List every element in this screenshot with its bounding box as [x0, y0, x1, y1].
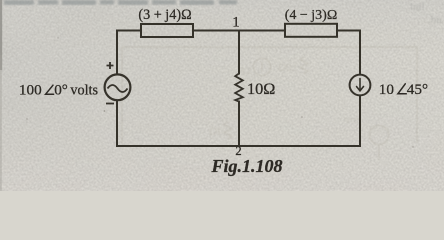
svg-text:.bn: .bn	[428, 14, 442, 26]
svg-text:A2: A2	[238, 65, 251, 77]
angle symbol of 10∠45°	[398, 84, 406, 94]
svg-text:10: 10	[379, 81, 395, 98]
resistor 10Ω zigzag	[235, 74, 243, 102]
svg-text:100: 100	[19, 82, 42, 99]
label 10Ω	[247, 79, 275, 98]
+ polarity mark	[107, 62, 114, 69]
wire node 1 drop to resistor	[238, 31, 240, 74]
wire top-left: from left corner to Z1	[117, 31, 141, 75]
svg-text:10Ω: 10Ω	[247, 79, 275, 98]
svg-text:lnil: lnil	[410, 1, 425, 13]
impedance Z2 (4-j3)Ω box	[285, 24, 337, 37]
faint cut-off text strip at top (decorative, not labelled individually)	[4, 0, 237, 5]
current source IS 10∠45°	[350, 75, 371, 96]
node 2	[235, 144, 241, 158]
wire top-right: Z2 to right corner down to current source	[337, 31, 360, 74]
wire bottom-right: node 2 to current source bottom	[239, 97, 360, 147]
label (4 − j3)Ω	[285, 8, 338, 23]
paper background	[0, 0, 444, 191]
label (3 + j4)Ω	[138, 7, 191, 23]
svg-text:1: 1	[232, 15, 240, 31]
angle symbol of 100∠0°	[46, 85, 54, 94]
- polarity mark	[106, 103, 114, 105]
svg-text:0°: 0°	[54, 82, 68, 99]
bleed-through of figure on reverse side (decorative)	[122, 47, 417, 160]
wire left-bottom: voltage source to bottom-left corner	[117, 101, 239, 146]
svg-text:45°: 45°	[407, 81, 428, 98]
svg-text:(3 + j4)Ω: (3 + j4)Ω	[138, 7, 191, 23]
circuit ink	[19, 7, 428, 176]
wire top-middle: Z1 to Z2 through node 1	[193, 30, 285, 32]
caption Fig.1.108	[210, 156, 282, 176]
svg-text:ΩI: ΩI	[209, 126, 221, 138]
svg-text:vor: vor	[345, 114, 360, 126]
label 10∠45°	[379, 81, 428, 98]
current source arrow (downward)	[357, 79, 364, 91]
paper specks (decorative)	[26, 37, 413, 147]
impedance Z1 (3+j4)Ω box	[141, 24, 193, 37]
label 100∠0° volts	[19, 82, 99, 99]
voltage source VS 100∠0° volts	[105, 74, 131, 100]
node 1	[232, 15, 240, 31]
svg-text:Fig.1.108: Fig.1.108	[210, 156, 282, 176]
wire resistor to node 2	[238, 102, 240, 146]
svg-text:volts: volts	[70, 83, 98, 99]
svg-text:(4 − j3)Ω: (4 − j3)Ω	[285, 8, 338, 23]
svg-text:Ω02: Ω02	[278, 62, 297, 74]
